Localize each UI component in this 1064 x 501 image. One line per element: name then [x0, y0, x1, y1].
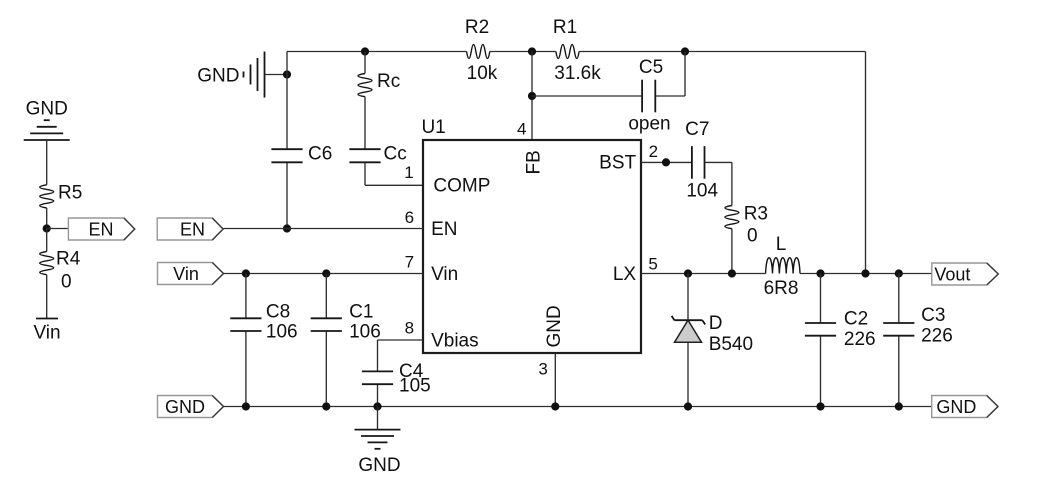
svg-text:GND: GND — [165, 397, 205, 417]
svg-text:EN: EN — [88, 220, 113, 240]
pin 5 stub — [648, 255, 657, 274]
wire top net left — [287, 51, 467, 53]
wire feedback vertical right — [865, 52, 867, 274]
wire R4 to Vin terminal — [46, 275, 48, 319]
capacitor Cc — [349, 144, 406, 165]
wire GND net — [224, 406, 932, 408]
svg-text:0: 0 — [747, 226, 758, 247]
op-amp/regulator U1 — [421, 117, 641, 353]
node R3 bottom — [728, 269, 736, 277]
flag Vout — [932, 263, 999, 285]
svg-text:BST: BST — [599, 152, 636, 173]
wire divider top — [46, 140, 48, 185]
pin 1 stub — [404, 163, 413, 182]
svg-text:Vout: Vout — [934, 265, 970, 285]
svg-text:open: open — [628, 113, 670, 134]
capacitor C8 — [230, 274, 297, 407]
svg-text:104: 104 — [686, 180, 718, 201]
wire pin 3 — [554, 353, 556, 407]
svg-text:3: 3 — [538, 359, 547, 378]
node C6 top junction — [283, 70, 291, 78]
svg-text:C7: C7 — [685, 119, 709, 140]
capacitor C2 — [805, 274, 876, 407]
pin 4 stub — [517, 120, 526, 139]
svg-text:R1: R1 — [553, 17, 577, 38]
wire Cc to pin 1 — [365, 162, 423, 185]
node C2 bottom — [816, 402, 824, 410]
svg-text:0: 0 — [61, 272, 72, 293]
wire top net right — [579, 51, 865, 53]
wire Vin net — [224, 273, 424, 275]
pin 3 stub — [538, 359, 547, 378]
wire vertical C6 branch — [286, 52, 288, 229]
wire LX pin 5 — [641, 273, 766, 275]
wire EN net — [224, 228, 424, 230]
inductor L — [764, 234, 800, 299]
node C5 top junction — [681, 47, 689, 55]
pin 2 stub — [649, 142, 658, 161]
node C6 bottom junction — [283, 224, 291, 232]
ground GND (top, rotated) — [197, 52, 264, 98]
svg-text:EN: EN — [180, 220, 205, 240]
capacitor C6 — [271, 144, 332, 165]
svg-text:R2: R2 — [465, 17, 489, 38]
svg-text:C3: C3 — [921, 305, 945, 326]
node C4 bottom — [373, 402, 381, 410]
node C2 top — [816, 269, 824, 277]
capacitor C5 — [628, 57, 670, 134]
resistor R3 — [725, 204, 768, 247]
svg-text:6: 6 — [405, 208, 414, 227]
svg-text:Vin: Vin — [431, 264, 458, 285]
wire node to R4 — [46, 229, 48, 252]
node C8 top — [242, 269, 250, 277]
svg-text:5: 5 — [648, 255, 657, 274]
svg-text:GND: GND — [544, 305, 565, 347]
svg-text:C6: C6 — [308, 144, 332, 165]
svg-text:31.6k: 31.6k — [554, 63, 601, 84]
svg-text:GND: GND — [358, 455, 400, 476]
capacitor C1 — [311, 274, 381, 407]
svg-text:Vin: Vin — [33, 323, 60, 344]
flag EN (at divider) — [68, 218, 134, 240]
wire ground to node — [265, 74, 288, 76]
node C1 top — [322, 269, 330, 277]
wire C7 to R3 — [705, 162, 732, 205]
svg-text:GND: GND — [197, 65, 239, 86]
svg-text:Cc: Cc — [384, 144, 407, 165]
flag GND (right) — [932, 396, 998, 418]
svg-text:6R8: 6R8 — [764, 278, 799, 299]
pin 6 stub — [405, 208, 414, 227]
ground GND (bottom center) — [355, 407, 401, 476]
svg-text:105: 105 — [399, 376, 431, 397]
wire C5 net left — [532, 95, 642, 97]
svg-text:8: 8 — [405, 318, 414, 337]
node diode bottom — [684, 402, 692, 410]
node C3 bottom — [895, 402, 903, 410]
pin 7 stub — [405, 253, 414, 272]
wire BST pin 2 — [641, 161, 692, 163]
svg-text:L: L — [776, 234, 787, 255]
svg-text:D: D — [709, 313, 723, 334]
terminal Vin (divider bottom) — [33, 319, 60, 344]
svg-text:GND: GND — [936, 397, 976, 417]
node C3 top — [895, 269, 903, 277]
wire R3 to LX — [731, 229, 733, 274]
flag GND (left) — [158, 396, 224, 418]
wire C5 net right — [655, 52, 685, 97]
resistor R4 — [40, 248, 81, 292]
svg-text:B540: B540 — [709, 334, 753, 355]
wire Rc lead — [364, 52, 366, 74]
svg-text:Vbias: Vbias — [431, 330, 479, 351]
resistor R5 — [40, 182, 83, 208]
wire FB pin 4 vertical — [531, 52, 533, 141]
svg-text:COMP: COMP — [433, 176, 490, 197]
svg-text:Rc: Rc — [377, 71, 400, 92]
wire R5 to node — [46, 208, 48, 229]
svg-text:106: 106 — [349, 322, 381, 343]
node BST — [662, 158, 670, 166]
node pin 3 bottom — [551, 402, 559, 410]
svg-text:R3: R3 — [744, 204, 768, 225]
svg-text:C5: C5 — [639, 57, 663, 78]
flag Vin (input) — [158, 263, 224, 285]
svg-text:FB: FB — [524, 150, 545, 174]
capacitor C7 — [685, 119, 718, 202]
diode D B540 — [672, 274, 753, 407]
capacitor C4 (Vbias) — [362, 340, 431, 407]
svg-text:R5: R5 — [58, 182, 82, 203]
svg-text:7: 7 — [405, 253, 414, 272]
svg-text:106: 106 — [266, 322, 298, 343]
pin 8 stub — [405, 318, 414, 337]
wire Rc to Cc — [364, 97, 366, 150]
flag EN (input) — [157, 218, 223, 240]
svg-text:226: 226 — [844, 329, 876, 350]
svg-text:GND: GND — [26, 99, 68, 120]
svg-text:1: 1 — [404, 163, 413, 182]
wire R2 to node — [490, 51, 556, 53]
svg-text:C8: C8 — [266, 301, 290, 322]
resistor Rc — [358, 71, 400, 97]
node FB mid junction — [528, 92, 536, 100]
node C8 bottom — [242, 402, 250, 410]
node Rc top — [361, 47, 369, 55]
svg-text:C2: C2 — [844, 309, 868, 330]
node EN divider junction — [43, 224, 69, 232]
resistor R1 — [553, 17, 601, 84]
capacitor C3 — [883, 274, 953, 407]
svg-text:226: 226 — [921, 326, 953, 347]
svg-text:2: 2 — [649, 142, 658, 161]
svg-text:10k: 10k — [467, 63, 498, 84]
svg-text:4: 4 — [517, 120, 526, 139]
svg-text:U1: U1 — [421, 117, 445, 138]
svg-text:Vin: Vin — [173, 264, 199, 284]
svg-text:EN: EN — [431, 219, 457, 240]
node feedback tap — [861, 269, 869, 277]
node FB top junction — [528, 47, 536, 55]
svg-text:LX: LX — [613, 264, 637, 285]
svg-text:C1: C1 — [349, 301, 373, 322]
power symbol GND (divider top) — [24, 99, 70, 141]
wire L to Vout — [800, 273, 932, 275]
svg-text:R4: R4 — [56, 248, 81, 269]
resistor R2 — [465, 17, 498, 84]
node C1 bottom — [322, 402, 330, 410]
node diode top — [684, 269, 692, 277]
